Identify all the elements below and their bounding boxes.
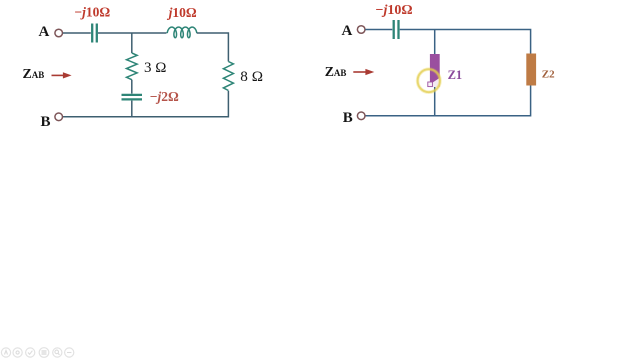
impedance Z1 (rect) [430,54,440,87]
label Z1 [448,68,463,82]
resistor R1 (3 ohm) [127,53,138,80]
wire C3 to node T2 to top-right corner down to Z2 [400,30,531,54]
label A (left) [39,24,50,40]
wire node T2 down to Z1 [434,30,436,55]
wire junction T down to R1 [131,33,133,53]
wire C1 to node T (junction) to L1 [98,32,167,34]
svg-text:ZAB: ZAB [325,64,347,79]
node B (right) terminal [357,112,365,120]
resistor R2 (8 ohm) [223,62,233,91]
label Z_AB (right) [325,64,347,79]
capacitor C1 (-j10 ohm) plates [92,24,97,43]
eraser wipe on Z1 lower part [430,78,440,87]
svg-text:−j10Ω: −j10Ω [376,3,413,18]
svg-text:B: B [41,114,51,130]
svg-text:−j10Ω: −j10Ω [74,4,110,19]
value label 3 ohm [144,60,166,76]
svg-text:A: A [39,24,50,40]
arrow Z_AB (left) [52,72,72,78]
svg-text:B: B [343,110,353,126]
label Z_AB (left) [23,66,45,81]
capacitor C2 (-j2 ohm) plates [122,95,143,100]
annotation yellow circle on Z1 [418,69,440,92]
label B (left) [41,114,51,130]
svg-text:A: A [342,23,353,39]
value label j10 ohm [167,5,197,20]
svg-text:3 Ω: 3 Ω [144,60,166,76]
impedance Z2 (rect) [526,54,536,86]
wire L1 to top-right corner, down to R2 [197,33,229,62]
wire Z2 to bottom-right corner to node B (right) [365,86,530,116]
selection handle on Z1 [428,82,433,87]
label A (right) [342,23,353,39]
svg-text:Z1: Z1 [448,68,463,82]
wire R1 to C2 [131,80,133,94]
value label 8 ohm [240,68,263,85]
svg-text:ZAB: ZAB [23,66,45,81]
svg-text:j10Ω: j10Ω [167,5,197,20]
value label -j10 ohm (right) [376,3,413,18]
svg-text:−j2Ω: −j2Ω [150,89,179,104]
wire Z1 to bottom wire [434,87,436,116]
label Z2 [542,68,555,80]
wire A to C3 [365,29,392,31]
wire C2 to bottom wire junction [131,101,133,117]
node A (right) terminal [357,26,365,34]
svg-text:8 Ω: 8 Ω [240,68,263,85]
label B (right) [343,110,353,126]
wire A to C1 [63,32,91,34]
node B (left) terminal [55,113,63,121]
arrow Z_AB (right) [353,69,374,75]
svg-text:Z2: Z2 [542,68,555,80]
value label -j2 ohm [150,89,179,104]
wire R2 to bottom-right corner to node B [63,91,229,117]
capacitor C3 (-j10 ohm) plates [394,20,399,39]
value label -j10 ohm (left) [74,4,110,19]
inductor L1 (j10 ohm) [167,27,197,38]
node A (left) terminal [55,29,63,37]
